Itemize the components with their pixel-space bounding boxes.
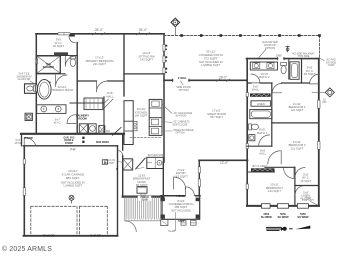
wall hall top y81 bbox=[77, 80, 124, 82]
KITCHEN TEXTS bbox=[76, 107, 194, 197]
svg-text:THIS SIDE: THIS SIDE bbox=[298, 55, 310, 58]
GREAT ROOM / PATIO / ENTRY bbox=[125, 18, 195, 232]
svg-text:160 SQFT: 160 SQFT bbox=[135, 114, 148, 118]
svg-text:W.I.C.: W.I.C. bbox=[54, 121, 62, 125]
box-X outside left bbox=[25, 113, 32, 120]
svg-text:147 SQFT: 147 SQFT bbox=[174, 175, 188, 179]
wall laundry right x104 bbox=[103, 97, 105, 134]
svg-text:BATH 3: BATH 3 bbox=[257, 131, 268, 135]
svg-text:P: P bbox=[116, 167, 118, 171]
wic2 door arc bbox=[295, 168, 305, 178]
corridor door arc bbox=[117, 150, 122, 155]
WC toilet bbox=[27, 86, 33, 91]
linen bifold dark bbox=[250, 93, 271, 96]
porch step boxes bbox=[181, 221, 196, 226]
wall right-wing right x318.7 bbox=[318, 59, 320, 206]
svg-text:SLAB: SLAB bbox=[168, 229, 175, 233]
svg-text:ROOM: ROOM bbox=[78, 117, 87, 121]
svg-text:357 SQFT: 357 SQFT bbox=[210, 115, 223, 119]
GARAGE GROUP bbox=[31, 160, 108, 235]
pantry box bbox=[123, 159, 133, 170]
bed3 door arc bbox=[268, 151, 281, 164]
wall bath3 bottom y146.2 bbox=[247, 145, 272, 147]
svg-text:OPTION: OPTION bbox=[179, 88, 189, 92]
tub oval bbox=[38, 80, 52, 100]
top wall door jamb bbox=[278, 57, 285, 60]
svg-text:PRIMARY BATH: PRIMARY BATH bbox=[51, 88, 73, 92]
shower box bbox=[37, 56, 61, 73]
kitchen hall diagonal bbox=[113, 128, 122, 136]
svg-text:B2 CLOSET: B2 CLOSET bbox=[253, 164, 268, 168]
svg-text:STEP: STEP bbox=[178, 220, 185, 223]
svg-text:28'-0": 28'-0" bbox=[95, 28, 104, 32]
wall right-wing vertical x247 bbox=[246, 59, 248, 206]
corner note leader bbox=[311, 202, 318, 206]
porch structure walls bbox=[162, 196, 200, 220]
wall below WIC1 bbox=[36, 55, 77, 57]
bath2 vanity bbox=[250, 62, 277, 70]
wall left exterior bbox=[35, 34, 37, 134]
svg-text:589 SQFT: 589 SQFT bbox=[66, 176, 80, 180]
windows on x164 bbox=[163, 45, 167, 75]
svg-text:28'-0": 28'-0" bbox=[219, 75, 227, 79]
svg-text:YARD: YARD bbox=[328, 64, 335, 67]
powder jamb marks bbox=[82, 137, 84, 139]
bedroom2 door arc bbox=[284, 168, 294, 178]
shower leader bbox=[30, 81, 36, 85]
TEXT BLOCKS bbox=[51, 28, 155, 125]
island bbox=[124, 101, 133, 145]
svg-text:48 SF: 48 SF bbox=[15, 142, 22, 145]
RIGHT WING TEXTS bbox=[252, 40, 336, 219]
windows right wall bbox=[318, 100, 320, 108]
bedroom door arc bbox=[97, 81, 108, 92]
wall master right / entry left bbox=[163, 34, 165, 162]
wall bed4/bed3 y122.9 bbox=[272, 122, 319, 124]
svg-text:SOFT CLOSE: SOFT CLOSE bbox=[172, 123, 188, 126]
svg-text:LIVABLE SQFT: LIVABLE SQFT bbox=[201, 63, 220, 67]
porch leader bbox=[175, 213, 176, 231]
wall y185.5 bbox=[295, 185, 319, 187]
sinks bbox=[41, 106, 47, 112]
svg-text:SLAB: SLAB bbox=[141, 199, 148, 202]
svg-text:MAN DOOR: MAN DOOR bbox=[96, 141, 109, 144]
wall x124 bbox=[123, 34, 125, 96]
svg-text:HALL: HALL bbox=[252, 88, 259, 92]
dashed upper cabinets bbox=[130, 137, 162, 139]
svg-text:45 SQFT: 45 SQFT bbox=[53, 44, 65, 48]
wall garage left bbox=[23, 146, 25, 236]
svg-text:BUTLER SINK: BUTLER SINK bbox=[148, 154, 165, 157]
bottom wall window boxes bbox=[262, 204, 271, 209]
wall bath3 col right x271.8 bbox=[271, 83, 273, 146]
svg-text:LIVABLE SQFT: LIVABLE SQFT bbox=[63, 183, 82, 187]
svg-text:BUILT-INS: BUILT-INS bbox=[98, 132, 110, 136]
ac leader bbox=[319, 58, 324, 61]
wall entry right x199 bbox=[198, 160, 200, 195]
washer dryer boxes bbox=[79, 124, 87, 133]
porch corner posts bbox=[161, 198, 165, 202]
svg-text:SH WDW: SH WDW bbox=[277, 215, 289, 219]
svg-text:45 SQFT: 45 SQFT bbox=[304, 72, 316, 76]
wall right-wing top y58.5 bbox=[247, 58, 319, 60]
wic door arc bbox=[310, 74, 320, 84]
svg-text:BATH 2: BATH 2 bbox=[259, 75, 270, 79]
bed2 closet bifold dark bbox=[251, 168, 275, 171]
door arcs left wing bbox=[69, 36, 75, 42]
bath3 toilet bbox=[249, 124, 252, 130]
bed4 door arc bbox=[272, 84, 281, 93]
svg-text:121 SQFT: 121 SQFT bbox=[291, 146, 304, 150]
svg-text:221 SQFT: 221 SQFT bbox=[93, 62, 106, 66]
wall right-wing bottom y206 bbox=[247, 205, 319, 207]
wall bath2 bottom y83 bbox=[247, 82, 309, 84]
window top wall bbox=[58, 33, 70, 35]
wall bed3/bed2 y167.3 bbox=[265, 166, 295, 168]
svg-text:SH WDW: SH WDW bbox=[261, 215, 273, 219]
side door jambs bbox=[173, 79, 190, 82]
svg-text:LINEN: LINEN bbox=[257, 102, 265, 106]
wall bath2/toilet divider x288.8 bbox=[288, 59, 290, 79]
svg-text:POP OUT: POP OUT bbox=[302, 198, 314, 202]
window garage left 2 bbox=[23, 188, 25, 196]
bath2 toilet bbox=[281, 63, 287, 66]
porch top label bbox=[138, 196, 152, 201]
side door leader bbox=[181, 81, 184, 85]
wall garage top bbox=[24, 145, 118, 147]
svg-text:KW: KW bbox=[322, 100, 327, 104]
front door arc bbox=[186, 187, 195, 196]
nook window seat bbox=[137, 187, 147, 194]
porch slab stripes bbox=[126, 197, 160, 219]
svg-text:7'-0": 7'-0" bbox=[70, 149, 76, 152]
wall greatroom top y80 bbox=[164, 79, 247, 81]
svg-text:372 SQFT: 372 SQFT bbox=[204, 56, 218, 60]
D box bbox=[102, 160, 107, 164]
svg-text:121 SQFT: 121 SQFT bbox=[291, 108, 304, 112]
svg-text:4' WALL: 4' WALL bbox=[176, 195, 186, 198]
smoke diamond bbox=[325, 88, 334, 97]
svg-text:8'x8' GD: 8'x8' GD bbox=[90, 234, 101, 238]
vanity counter bbox=[37, 105, 66, 114]
shelves bar bbox=[54, 52, 68, 55]
svg-text:OPTION: OPTION bbox=[265, 46, 275, 50]
closet shelf line y172 bbox=[249, 171, 275, 173]
windows on x247 bbox=[246, 93, 248, 97]
window garage left 1 bbox=[23, 159, 25, 164]
svg-text:28'-0": 28'-0" bbox=[139, 28, 148, 32]
svg-text:GAR. SVC: GAR. SVC bbox=[63, 137, 74, 140]
appliance leader lines bbox=[163, 105, 173, 132]
svg-text:GLASS DR: GLASS DR bbox=[18, 78, 31, 81]
bath3 sink bbox=[249, 135, 255, 141]
svg-text:SHOWER: SHOWER bbox=[43, 66, 54, 69]
svg-text:NOT INCLUDED: NOT INCLUDED bbox=[171, 208, 191, 212]
slab corner arc bbox=[125, 221, 136, 232]
RIGHT WING FIXTURES bbox=[249, 46, 335, 208]
toilet WC1 upper bbox=[70, 56, 75, 59]
wall tub/wic divider x301.5 bbox=[301, 59, 303, 83]
wall WC divider bbox=[59, 56, 61, 74]
window entry right 2 bbox=[198, 179, 200, 187]
svg-text:143 SQFT: 143 SQFT bbox=[140, 58, 153, 62]
svg-text:2' WALL: 2' WALL bbox=[178, 77, 188, 80]
bath2 tub bbox=[290, 62, 299, 80]
svg-text:OPTION: OPTION bbox=[175, 132, 184, 135]
diagonal pantry door bbox=[136, 158, 146, 169]
laundry note leader bbox=[259, 49, 267, 58]
svg-text:12'-6": 12'-6" bbox=[220, 161, 228, 165]
svg-text:HALL: HALL bbox=[259, 152, 266, 156]
patio posts bbox=[180, 34, 321, 37]
garage door dashed boxes bbox=[31, 206, 77, 235]
wall greatroom bottom y160 bbox=[199, 159, 248, 161]
wall kitchen-nook left bbox=[122, 134, 124, 197]
laundry door arc bbox=[67, 115, 76, 124]
wall wic/bath col x294.9 bbox=[294, 167, 296, 206]
wall laundry top y103 bbox=[70, 102, 104, 104]
linen box bbox=[251, 101, 271, 106]
bath2 door arc bbox=[251, 74, 260, 83]
patio diamond symbol bbox=[171, 18, 180, 27]
svg-text:PWDR: PWDR bbox=[24, 136, 32, 140]
hose bib bbox=[286, 46, 290, 52]
svg-text:© 2025 ARMLS: © 2025 ARMLS bbox=[2, 245, 52, 253]
wall entry bottom / porch top bbox=[161, 195, 200, 197]
bath3 tub bbox=[250, 110, 272, 119]
svg-text:W/ HOOD: W/ HOOD bbox=[176, 115, 187, 118]
svg-text:STOOP: STOOP bbox=[65, 143, 73, 145]
window left wall bbox=[35, 59, 37, 64]
scale arrow bbox=[266, 226, 310, 231]
wall garage right bbox=[117, 146, 119, 236]
svg-text:25 SQFT: 25 SQFT bbox=[300, 179, 311, 183]
dimension ticks bbox=[93, 33, 230, 82]
svg-text:2868: 2868 bbox=[276, 54, 282, 58]
wall top left wing bbox=[36, 33, 164, 35]
svg-text:HALL: HALL bbox=[106, 94, 114, 98]
svg-text:SH WDW: SH WDW bbox=[297, 215, 309, 219]
WC bump walls bbox=[25, 84, 37, 94]
bath3 door arc bbox=[259, 135, 270, 146]
wall nook bottom thick bbox=[123, 196, 164, 198]
wall below shower bbox=[36, 73, 65, 75]
LAUNDRY bbox=[84, 98, 103, 110]
wall garage bottom bbox=[24, 235, 118, 237]
svg-text:143 SQFT: 143 SQFT bbox=[268, 189, 281, 193]
wall x77.2 bbox=[76, 43, 78, 134]
wall sitting bottom bbox=[124, 73, 164, 75]
step box bbox=[161, 220, 168, 226]
svg-text:16'x8' GD: 16'x8' GD bbox=[42, 234, 54, 238]
butler counter bbox=[147, 157, 164, 168]
window entry right 1 bbox=[198, 167, 200, 173]
svg-text:99 SQFT: 99 SQFT bbox=[136, 183, 148, 187]
slab edges bbox=[125, 197, 161, 221]
wall bottom left wing thick bbox=[21, 133, 124, 135]
island sink bump bbox=[133, 121, 137, 130]
entry inner door arc bbox=[174, 177, 186, 189]
KITCHEN GROUP bbox=[67, 98, 172, 193]
lndry2 door arc bbox=[295, 186, 304, 195]
appliance run bbox=[149, 99, 162, 135]
wall entry hall left bbox=[21, 134, 23, 146]
garage floor drain symbol bbox=[69, 195, 74, 200]
entry hall door arc bbox=[24, 138, 36, 146]
PATIO dashed boundary bbox=[164, 36, 320, 58]
